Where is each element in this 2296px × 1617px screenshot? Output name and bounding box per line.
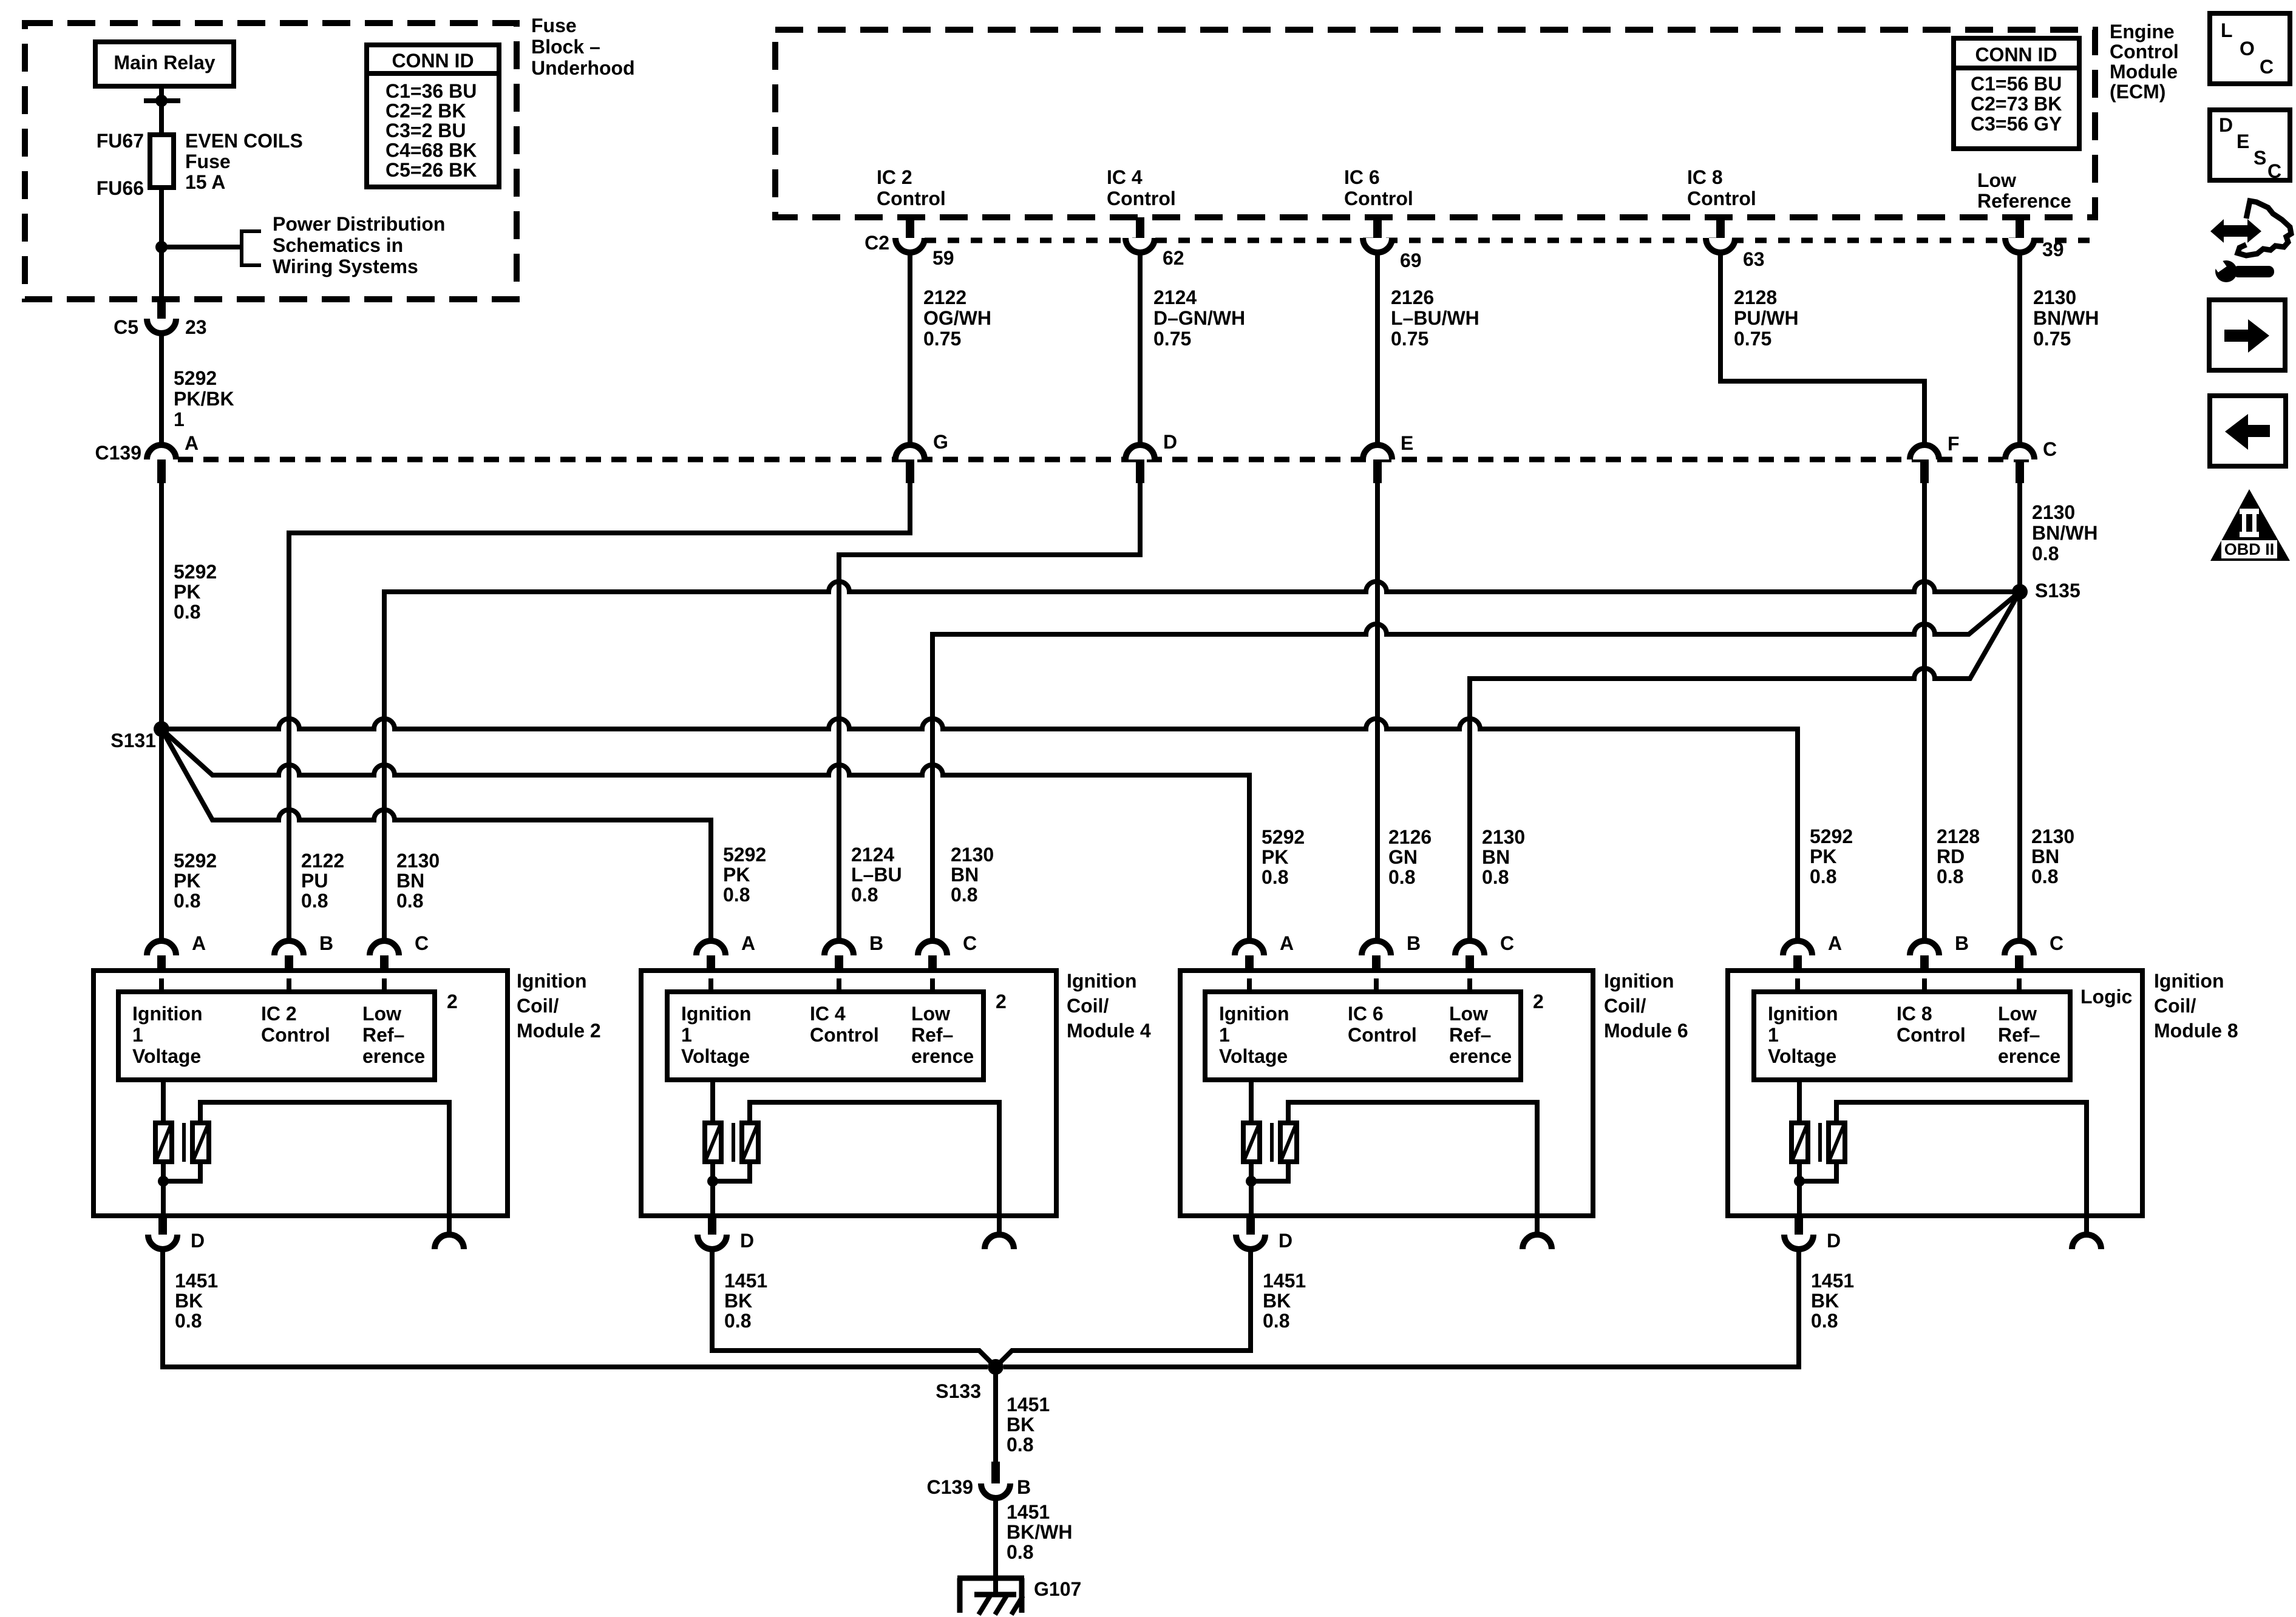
module 6 node coil junction — [1246, 1176, 1257, 1187]
ECM pin label IC 4 Control — [1107, 166, 1176, 209]
svg-text:5292: 5292 — [723, 844, 766, 866]
label C139 F — [1948, 433, 1960, 455]
label module 8 Ignition 1 Voltage — [1768, 1003, 1838, 1067]
svg-text:S135: S135 — [2035, 580, 2080, 602]
wire 2122 jog C139 G to module 2 pin B — [289, 483, 910, 941]
svg-text:C2=73 BK: C2=73 BK — [1971, 93, 2062, 115]
label C139 A — [185, 432, 199, 454]
svg-text:B: B — [869, 932, 883, 954]
svg-text:0.8: 0.8 — [1262, 866, 1288, 888]
label wire 2130 BN/WH 0.8 below C139 C — [2032, 501, 2097, 564]
module 6 secondary winding — [1280, 1123, 1297, 1162]
svg-text:0.8: 0.8 — [301, 890, 328, 912]
connector module 4 pin C — [918, 941, 947, 978]
connector module 6 pin A — [1235, 941, 1264, 978]
svg-text:BK: BK — [175, 1290, 203, 1312]
svg-text:Ignition: Ignition — [2154, 970, 2224, 992]
svg-text:0.8: 0.8 — [1007, 1541, 1033, 1563]
svg-text:Block –: Block – — [531, 36, 600, 58]
label module 4 D — [740, 1230, 754, 1252]
svg-text:Schematics in: Schematics in — [273, 234, 403, 256]
svg-text:2128: 2128 — [1937, 825, 1980, 847]
svg-text:Ignition: Ignition — [132, 1003, 203, 1025]
label wire 2128 RD 0.8 module 8 — [1937, 825, 1980, 887]
svg-text:0.8: 0.8 — [2032, 543, 2059, 564]
svg-text:2122: 2122 — [923, 286, 966, 308]
svg-text:FU66: FU66 — [97, 177, 144, 199]
svg-text:1: 1 — [1768, 1024, 1779, 1046]
label S133 — [936, 1380, 981, 1402]
svg-text:Underhood: Underhood — [531, 57, 635, 79]
connector module 8 spark output — [2072, 1216, 2101, 1249]
label C139 E — [1401, 432, 1413, 454]
fuse block label — [531, 15, 635, 79]
ECM pin label Low Reference — [1977, 169, 2071, 212]
fuse block CONN ID table — [367, 45, 499, 187]
label C139 at B — [927, 1476, 974, 1498]
svg-text:PK: PK — [1262, 846, 1288, 868]
module 6 primary winding — [1243, 1123, 1260, 1162]
label wire 2130 BN 0.8 module 4 — [951, 844, 994, 906]
svg-text:C: C — [963, 932, 977, 954]
node power distribution tap — [155, 241, 242, 253]
label module 6 pin A — [1280, 932, 1294, 954]
svg-text:BN: BN — [396, 870, 424, 892]
connector module 8 pin A — [1783, 941, 1812, 978]
label module 4 pin A — [741, 932, 755, 954]
label module 4 "2" — [996, 991, 1007, 1012]
svg-text:Coil/: Coil/ — [1067, 995, 1109, 1017]
wire 2130 S135 branch to module 4 pin C — [932, 592, 2020, 941]
icon forward arrow box — [2209, 300, 2285, 370]
module 8 node coil junction — [1794, 1176, 1805, 1187]
connector C139 pin F — [1910, 445, 1939, 483]
label wire 1451 BK 0.8 below S133 — [1007, 1394, 1050, 1456]
svg-text:IC 2: IC 2 — [877, 166, 912, 188]
module 2 wire secondary bottom to junction — [163, 1162, 200, 1181]
label wire 5292 PK 0.8 module 6 — [1262, 826, 1305, 888]
svg-text:L: L — [2221, 19, 2233, 41]
svg-text:C1=36 BU: C1=36 BU — [385, 80, 477, 102]
svg-text:5292: 5292 — [174, 367, 217, 389]
wire 5292 PK/BK — [159, 333, 164, 446]
wire 1451 C139 B to G107 — [993, 1498, 998, 1596]
svg-text:0.8: 0.8 — [1482, 866, 1509, 888]
svg-text:Coil/: Coil/ — [517, 995, 559, 1017]
label wire 2130 BN 0.8 module 6 — [1482, 826, 1525, 888]
svg-text:0.8: 0.8 — [1388, 866, 1415, 888]
svg-text:Low: Low — [1998, 1003, 2037, 1025]
svg-text:0.8: 0.8 — [174, 601, 200, 623]
svg-text:O: O — [2240, 38, 2255, 59]
label wire 1451 BK/WH 0.8 — [1007, 1501, 1072, 1563]
svg-text:PU: PU — [301, 870, 328, 892]
label module 4 IC 4 Control — [810, 1003, 879, 1046]
svg-text:Coil/: Coil/ — [1604, 995, 1646, 1017]
module 4 core — [732, 1123, 735, 1162]
ignition coil module 2 outer box — [93, 971, 508, 1216]
svg-text:D: D — [191, 1230, 205, 1252]
svg-text:C2=2 BK: C2=2 BK — [385, 100, 466, 122]
connector module 2 pin B — [274, 941, 304, 978]
svg-text:erence: erence — [911, 1045, 974, 1067]
connector module 2 pin A — [147, 941, 176, 978]
wire 5292 S131 branch to module 8 pin A — [161, 719, 1798, 941]
label module 4 pin B — [869, 932, 883, 954]
module 8 wire primary to pin D — [1797, 1162, 1802, 1216]
svg-text:erence: erence — [1998, 1045, 2060, 1067]
wire 2128 C139 F to module 8 pin B — [1922, 483, 1927, 941]
svg-text:Ignition: Ignition — [681, 1003, 752, 1025]
connector module 4 pin D — [698, 1216, 727, 1249]
label Ignition Coil Module 2 — [517, 970, 601, 1042]
wire 1451 S133 to C139 B — [993, 1367, 998, 1462]
svg-text:Control: Control — [1348, 1024, 1417, 1046]
svg-text:E: E — [2237, 131, 2249, 152]
svg-text:2126: 2126 — [1391, 286, 1434, 308]
svg-text:1: 1 — [174, 408, 185, 430]
label module 6 Ignition 1 Voltage — [1219, 1003, 1289, 1067]
label S135 — [2035, 580, 2080, 602]
svg-text:Low: Low — [1449, 1003, 1488, 1025]
ECM pin 59 connector — [895, 217, 925, 253]
svg-text:D: D — [1279, 1230, 1292, 1252]
wire 2130 C139 C to S135 to module 8 pin C — [2017, 483, 2022, 941]
label module 6 D — [1279, 1230, 1292, 1252]
splice S135 — [2012, 584, 2028, 600]
label module 2 D — [191, 1230, 205, 1252]
module 4 node coil junction — [707, 1176, 718, 1187]
label wire 2122 PU 0.8 module 2 — [301, 850, 344, 912]
svg-text:2130: 2130 — [2033, 286, 2076, 308]
label C2 — [864, 232, 889, 254]
svg-text:1: 1 — [1219, 1024, 1230, 1046]
svg-text:Main Relay: Main Relay — [114, 52, 215, 73]
svg-text:Ignition: Ignition — [1768, 1003, 1838, 1025]
module 6 wire secondary to spark output — [1288, 1102, 1537, 1216]
svg-text:erence: erence — [1449, 1045, 1512, 1067]
svg-text:(ECM): (ECM) — [2110, 81, 2165, 103]
ECM pin label IC 8 Control — [1687, 166, 1756, 209]
label Ignition Coil Module 8 — [2154, 970, 2238, 1042]
label wire 2126 L–BU/WH — [1391, 286, 1479, 350]
svg-text:C3=2 BU: C3=2 BU — [385, 120, 466, 141]
svg-text:BN/WH: BN/WH — [2033, 307, 2099, 329]
connector module 6 pin C — [1455, 941, 1484, 978]
svg-text:IC 4: IC 4 — [1107, 166, 1143, 188]
svg-text:2: 2 — [1533, 991, 1544, 1012]
svg-text:Low: Low — [911, 1003, 950, 1025]
svg-text:2122: 2122 — [301, 850, 344, 872]
wire 5292 C139 A to S131 to module 2 pin A — [159, 483, 164, 941]
svg-text:IC 2: IC 2 — [261, 1003, 297, 1025]
fuse block - underhood dashed box — [25, 23, 517, 299]
svg-text:5292: 5292 — [1810, 825, 1853, 847]
svg-text:Control: Control — [1897, 1024, 1966, 1046]
svg-text:1451: 1451 — [1007, 1394, 1050, 1415]
svg-text:CONN ID: CONN ID — [392, 50, 474, 72]
icon vehicle double-arrow wrench — [2209, 201, 2291, 282]
label C139 G — [933, 431, 948, 453]
ECM label — [2110, 21, 2179, 103]
svg-text:C139: C139 — [95, 442, 142, 464]
svg-text:C: C — [415, 932, 429, 954]
svg-text:G: G — [933, 431, 948, 453]
svg-text:OBD II: OBD II — [2224, 540, 2275, 558]
svg-text:Ignition: Ignition — [1604, 970, 1674, 992]
label wire 5292 PK 0.8 module 4 — [723, 844, 766, 906]
module 2 wire primary to pin D — [161, 1162, 166, 1216]
wire 2130 ECM to C139 C — [2017, 253, 2022, 445]
svg-text:Voltage: Voltage — [681, 1045, 750, 1067]
svg-text:0.75: 0.75 — [1391, 328, 1428, 350]
svg-text:B: B — [1407, 932, 1421, 954]
connector module 4 pin B — [824, 941, 854, 978]
bracket power distribution — [242, 231, 261, 265]
module 8 pin wires into logic box — [1798, 978, 2019, 992]
svg-text:0.8: 0.8 — [723, 884, 750, 906]
svg-text:Control: Control — [1687, 188, 1756, 209]
svg-text:0.75: 0.75 — [923, 328, 961, 350]
svg-text:BK: BK — [1811, 1290, 1839, 1312]
svg-text:S131: S131 — [110, 730, 156, 751]
label wire 2122 OG/WH — [923, 286, 991, 350]
svg-text:2130: 2130 — [1482, 826, 1525, 848]
svg-text:2124: 2124 — [851, 844, 894, 866]
connector C139 pin D — [1126, 445, 1155, 483]
label module 2 pin B — [319, 932, 333, 954]
svg-text:C5=26 BK: C5=26 BK — [385, 159, 477, 181]
svg-text:Control: Control — [2110, 41, 2179, 63]
svg-text:C1=56 BU: C1=56 BU — [1971, 73, 2062, 95]
svg-text:69: 69 — [1400, 249, 1422, 271]
label wire 2124 D–GN/WH — [1153, 286, 1245, 350]
label module 6 IC 6 Control — [1348, 1003, 1417, 1046]
label 23 — [185, 316, 207, 338]
module 4 pin wires into logic box — [711, 978, 932, 992]
svg-text:BN: BN — [1482, 846, 1510, 868]
svg-text:BN/WH: BN/WH — [2032, 522, 2097, 544]
svg-text:C: C — [2043, 438, 2057, 460]
label wire 2130 BN 0.8 module 8 — [2031, 825, 2074, 887]
svg-text:Ref–: Ref– — [362, 1024, 404, 1046]
wire fuse to C5 — [159, 188, 164, 300]
module 4 wire inner box to primary — [710, 1080, 715, 1123]
svg-text:Fuse: Fuse — [531, 15, 577, 36]
icon OBD II triangle — [2210, 489, 2290, 561]
connector module 4 spark output — [985, 1216, 1014, 1249]
connector module 6 pin D — [1236, 1216, 1265, 1249]
connector C139 pin C — [2005, 445, 2034, 483]
connector C139 pin A — [147, 445, 176, 483]
wire module 6 pin D to S133 — [996, 1249, 1251, 1367]
svg-text:A: A — [185, 432, 199, 454]
svg-text:IC 6: IC 6 — [1348, 1003, 1384, 1025]
svg-text:0.8: 0.8 — [175, 1310, 202, 1332]
label module 8 pin B — [1955, 932, 1969, 954]
splice S131 — [154, 721, 169, 737]
svg-text:BK/WH: BK/WH — [1007, 1521, 1072, 1543]
svg-text:1451: 1451 — [1007, 1501, 1050, 1523]
connector C139 pin E — [1363, 445, 1392, 483]
svg-text:Low: Low — [362, 1003, 401, 1025]
label module 2 pin C — [415, 932, 429, 954]
svg-text:B: B — [1017, 1476, 1031, 1498]
svg-text:59: 59 — [932, 247, 954, 269]
wire 5292 S131 branch to module 4 pin A — [161, 729, 711, 941]
svg-text:BK: BK — [724, 1290, 752, 1312]
connector module 4 pin A — [696, 941, 725, 978]
ignition coil module 4 outer box — [641, 971, 1056, 1216]
svg-text:Control: Control — [1107, 188, 1176, 209]
svg-text:Ignition: Ignition — [1219, 1003, 1289, 1025]
svg-text:PK: PK — [1810, 846, 1836, 867]
svg-text:C139: C139 — [927, 1476, 974, 1498]
label EVEN COILS Fuse 15 A — [185, 130, 303, 193]
svg-text:C3=56 GY: C3=56 GY — [1971, 113, 2062, 135]
svg-text:CONN ID: CONN ID — [1975, 44, 2057, 66]
wire module 4 pin D to S133 — [712, 1249, 996, 1367]
svg-text:Control: Control — [1344, 188, 1413, 209]
ECM connector C2 dotted line — [925, 238, 2093, 243]
svg-text:5292: 5292 — [1262, 826, 1305, 848]
svg-text:39: 39 — [2042, 239, 2064, 260]
svg-text:F: F — [1948, 433, 1960, 455]
svg-text:0.8: 0.8 — [1810, 866, 1836, 887]
svg-text:2126: 2126 — [1388, 826, 1432, 848]
label Ignition Coil Module 4 — [1067, 970, 1151, 1042]
svg-text:Voltage: Voltage — [132, 1045, 201, 1067]
svg-text:A: A — [741, 932, 755, 954]
connector module 6 spark output — [1523, 1216, 1552, 1249]
svg-text:0.8: 0.8 — [1811, 1310, 1838, 1332]
module 2 core — [182, 1123, 186, 1162]
connector C139 pin G — [895, 445, 925, 483]
splice S133 — [988, 1359, 1004, 1375]
connector module 6 pin B — [1362, 941, 1391, 978]
svg-text:S133: S133 — [936, 1380, 981, 1402]
wire module 8 pin D to ground bus — [1004, 1249, 1799, 1367]
label wire 2128 PU/WH — [1734, 286, 1799, 350]
connector module 2 spark output — [435, 1216, 464, 1249]
module 8 primary winding — [1792, 1123, 1808, 1162]
svg-text:63: 63 — [1743, 248, 1765, 270]
svg-text:Module: Module — [2110, 61, 2178, 83]
wire 2126 ECM to C139 E — [1375, 253, 1380, 445]
svg-text:FU67: FU67 — [97, 130, 144, 152]
svg-text:D: D — [1163, 431, 1177, 453]
label B — [1017, 1476, 1031, 1498]
svg-text:C2: C2 — [864, 232, 889, 254]
label module 2 Low Reference — [362, 1003, 425, 1067]
label wire 5292 PK 0.8 module 2 — [174, 850, 217, 912]
label wire 1451 BK 0.8 module 8 — [1811, 1270, 1854, 1332]
svg-text:1: 1 — [681, 1024, 692, 1046]
module 6 logic inner box — [1205, 992, 1521, 1080]
label module 8 IC 8 Control — [1897, 1003, 1966, 1046]
svg-text:S: S — [2254, 147, 2266, 169]
svg-text:Reference: Reference — [1977, 190, 2071, 212]
label module 4 Ignition 1 Voltage — [681, 1003, 752, 1067]
ECM pin label IC 6 Control — [1344, 166, 1413, 209]
svg-text:RD: RD — [1937, 846, 1965, 867]
module 4 logic inner box — [667, 992, 983, 1080]
module 4 secondary winding — [742, 1123, 758, 1162]
wire 5292 S131 branch to module 6 pin A — [161, 729, 1249, 941]
module 2 secondary winding — [192, 1123, 209, 1162]
label pin 63 — [1743, 248, 1765, 270]
svg-text:1451: 1451 — [1263, 1270, 1306, 1292]
label pin 59 — [932, 247, 954, 269]
label wire 2126 GN 0.8 module 6 — [1388, 826, 1432, 888]
connector module 2 pin D — [148, 1216, 177, 1249]
svg-text:BK: BK — [1263, 1290, 1291, 1312]
label wire 5292 PK 0.8 below C139 A — [174, 561, 217, 623]
label module 2 Ignition 1 Voltage — [132, 1003, 203, 1067]
label module 6 pin C — [1500, 932, 1514, 954]
module 8 secondary winding — [1829, 1123, 1845, 1162]
label Ignition Coil Module 6 — [1604, 970, 1688, 1042]
ECM CONN ID table — [1954, 38, 2079, 149]
svg-text:Power Distribution: Power Distribution — [273, 213, 445, 235]
svg-text:D: D — [740, 1230, 754, 1252]
module 2 primary winding — [155, 1123, 172, 1162]
label pin 62 — [1163, 247, 1184, 269]
svg-text:2130: 2130 — [396, 850, 440, 872]
svg-text:C5: C5 — [114, 316, 138, 338]
ECM pin 62 connector — [1126, 217, 1155, 253]
svg-text:Ref–: Ref– — [911, 1024, 953, 1046]
svg-text:IC 6: IC 6 — [1344, 166, 1380, 188]
svg-text:PK: PK — [174, 581, 200, 603]
svg-text:Ignition: Ignition — [517, 970, 587, 992]
svg-text:Logic: Logic — [2080, 986, 2132, 1008]
svg-text:2124: 2124 — [1153, 286, 1197, 308]
svg-text:L–BU/WH: L–BU/WH — [1391, 307, 1479, 329]
label pin 39 — [2042, 239, 2064, 260]
svg-text:Module 2: Module 2 — [517, 1020, 601, 1042]
svg-text:15 A: 15 A — [185, 171, 225, 193]
module 2 wire secondary to spark output — [200, 1102, 449, 1216]
label C139 D — [1163, 431, 1177, 453]
label G107 — [1034, 1578, 1081, 1600]
svg-text:C: C — [1500, 932, 1514, 954]
svg-text:A: A — [192, 932, 206, 954]
svg-text:0.8: 0.8 — [174, 890, 200, 912]
label wire 2130 BN 0.8 module 2 — [396, 850, 440, 912]
module 6 wire secondary bottom to junction — [1251, 1162, 1288, 1181]
svg-text:0.8: 0.8 — [2031, 866, 2058, 887]
svg-text:1451: 1451 — [1811, 1270, 1854, 1292]
label C139 C — [2043, 438, 2057, 460]
svg-text:1451: 1451 — [175, 1270, 218, 1292]
svg-text:2: 2 — [447, 991, 458, 1012]
svg-text:0.75: 0.75 — [1153, 328, 1191, 350]
svg-text:A: A — [1828, 932, 1842, 954]
svg-text:Ignition: Ignition — [1067, 970, 1137, 992]
svg-text:2128: 2128 — [1734, 286, 1777, 308]
svg-text:PK/BK: PK/BK — [174, 388, 234, 410]
svg-text:5292: 5292 — [174, 561, 217, 583]
wire 2130 S135 branch to module 2 pin C — [384, 581, 2020, 941]
svg-text:Voltage: Voltage — [1768, 1045, 1836, 1067]
svg-text:1451: 1451 — [724, 1270, 767, 1292]
label pin 69 — [1400, 249, 1422, 271]
svg-text:IC 4: IC 4 — [810, 1003, 846, 1025]
svg-text:D: D — [2219, 114, 2233, 136]
svg-text:23: 23 — [185, 316, 207, 338]
connector module 8 pin C — [2005, 941, 2034, 978]
